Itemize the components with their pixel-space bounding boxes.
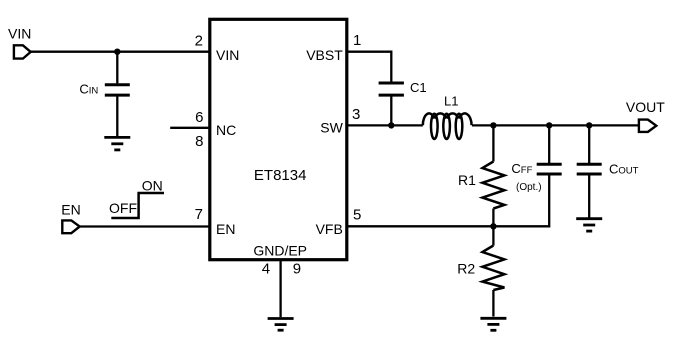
svg-text:2: 2: [195, 33, 203, 50]
ground under CIN: [104, 137, 130, 150]
wire R2 to ground: [492, 290, 494, 317]
svg-text:8: 8: [195, 133, 203, 150]
svg-text:VBST: VBST: [306, 47, 343, 63]
node junction VOUT/R1: [490, 122, 496, 128]
wire junction to CIN: [116, 52, 118, 84]
svg-text:GND/EP: GND/EP: [253, 243, 307, 259]
node VIN port: [8, 26, 31, 59]
capacitor CFF (Opt.): [511, 161, 561, 193]
svg-text:EN: EN: [216, 221, 235, 237]
svg-text:7: 7: [195, 206, 203, 223]
wire COUT to ground: [588, 175, 590, 218]
svg-text:4: 4: [262, 261, 270, 278]
wire GND/EP pins 4/9 to ground: [279, 260, 281, 318]
wire L1 to VOUT port: [472, 124, 639, 126]
svg-text:R2: R2: [457, 261, 475, 277]
wire R1 to VFB net: [492, 209, 494, 227]
wire VFB pin 5 to R divider and CFF: [347, 175, 549, 226]
svg-text:1: 1: [353, 32, 361, 49]
ground under R2: [480, 318, 506, 330]
svg-text:VFB: VFB: [316, 221, 343, 237]
svg-text:OFF: OFF: [109, 200, 137, 216]
wire VOUT net down to R1: [492, 125, 494, 161]
wire COUT top: [588, 125, 590, 163]
svg-text:9: 9: [293, 261, 301, 278]
capacitor C1: [379, 80, 427, 95]
ground under COUT: [576, 219, 602, 231]
node junction VOUT/COUT: [586, 122, 592, 128]
node junction SW/C1: [388, 122, 394, 128]
ground under IC: [268, 319, 294, 331]
svg-text:R1: R1: [458, 172, 476, 188]
node junction VIN/CIN: [114, 49, 120, 55]
svg-text:ET8134: ET8134: [254, 167, 307, 184]
svg-text:SW: SW: [320, 119, 343, 135]
capacitor CIN: [79, 81, 129, 96]
inductor L1: [423, 94, 472, 140]
svg-text:VIN: VIN: [8, 26, 31, 42]
svg-text:5: 5: [353, 207, 361, 224]
op-amp U1 ET8134 IC body: [210, 19, 347, 259]
wire VFB node down to R2: [492, 226, 494, 245]
wire VIN port to pin 2: [31, 51, 210, 53]
svg-text:VIN: VIN: [216, 47, 239, 63]
resistor R1: [458, 162, 504, 209]
node VOUT port: [626, 99, 665, 132]
svg-text:EN: EN: [61, 202, 80, 218]
wire CFF top: [548, 125, 550, 163]
wire C1 to SW net: [390, 96, 392, 125]
node junction VFB/R1/R2: [490, 223, 496, 229]
svg-text:VOUT: VOUT: [626, 99, 665, 115]
svg-text:ON: ON: [142, 178, 163, 194]
svg-text:6: 6: [195, 109, 203, 126]
node junction VOUT/CFF: [546, 122, 552, 128]
svg-text:NC: NC: [216, 122, 236, 138]
wire EN port to pin 7: [80, 225, 210, 227]
svg-text:L1: L1: [444, 94, 458, 109]
node EN port: [61, 202, 80, 234]
wire VBST pin 1 to C1: [347, 52, 392, 82]
wire NC stub pins 6/8: [170, 127, 210, 129]
capacitor COUT: [577, 162, 639, 177]
node ON/OFF step waveform: [109, 178, 164, 219]
svg-text:3: 3: [352, 106, 360, 123]
resistor R2: [457, 246, 504, 291]
wire CIN to ground: [116, 96, 118, 137]
svg-text:C1: C1: [410, 80, 427, 95]
svg-text:(Opt.): (Opt.): [516, 182, 542, 193]
wire SW pin 3 to L1: [347, 124, 423, 126]
